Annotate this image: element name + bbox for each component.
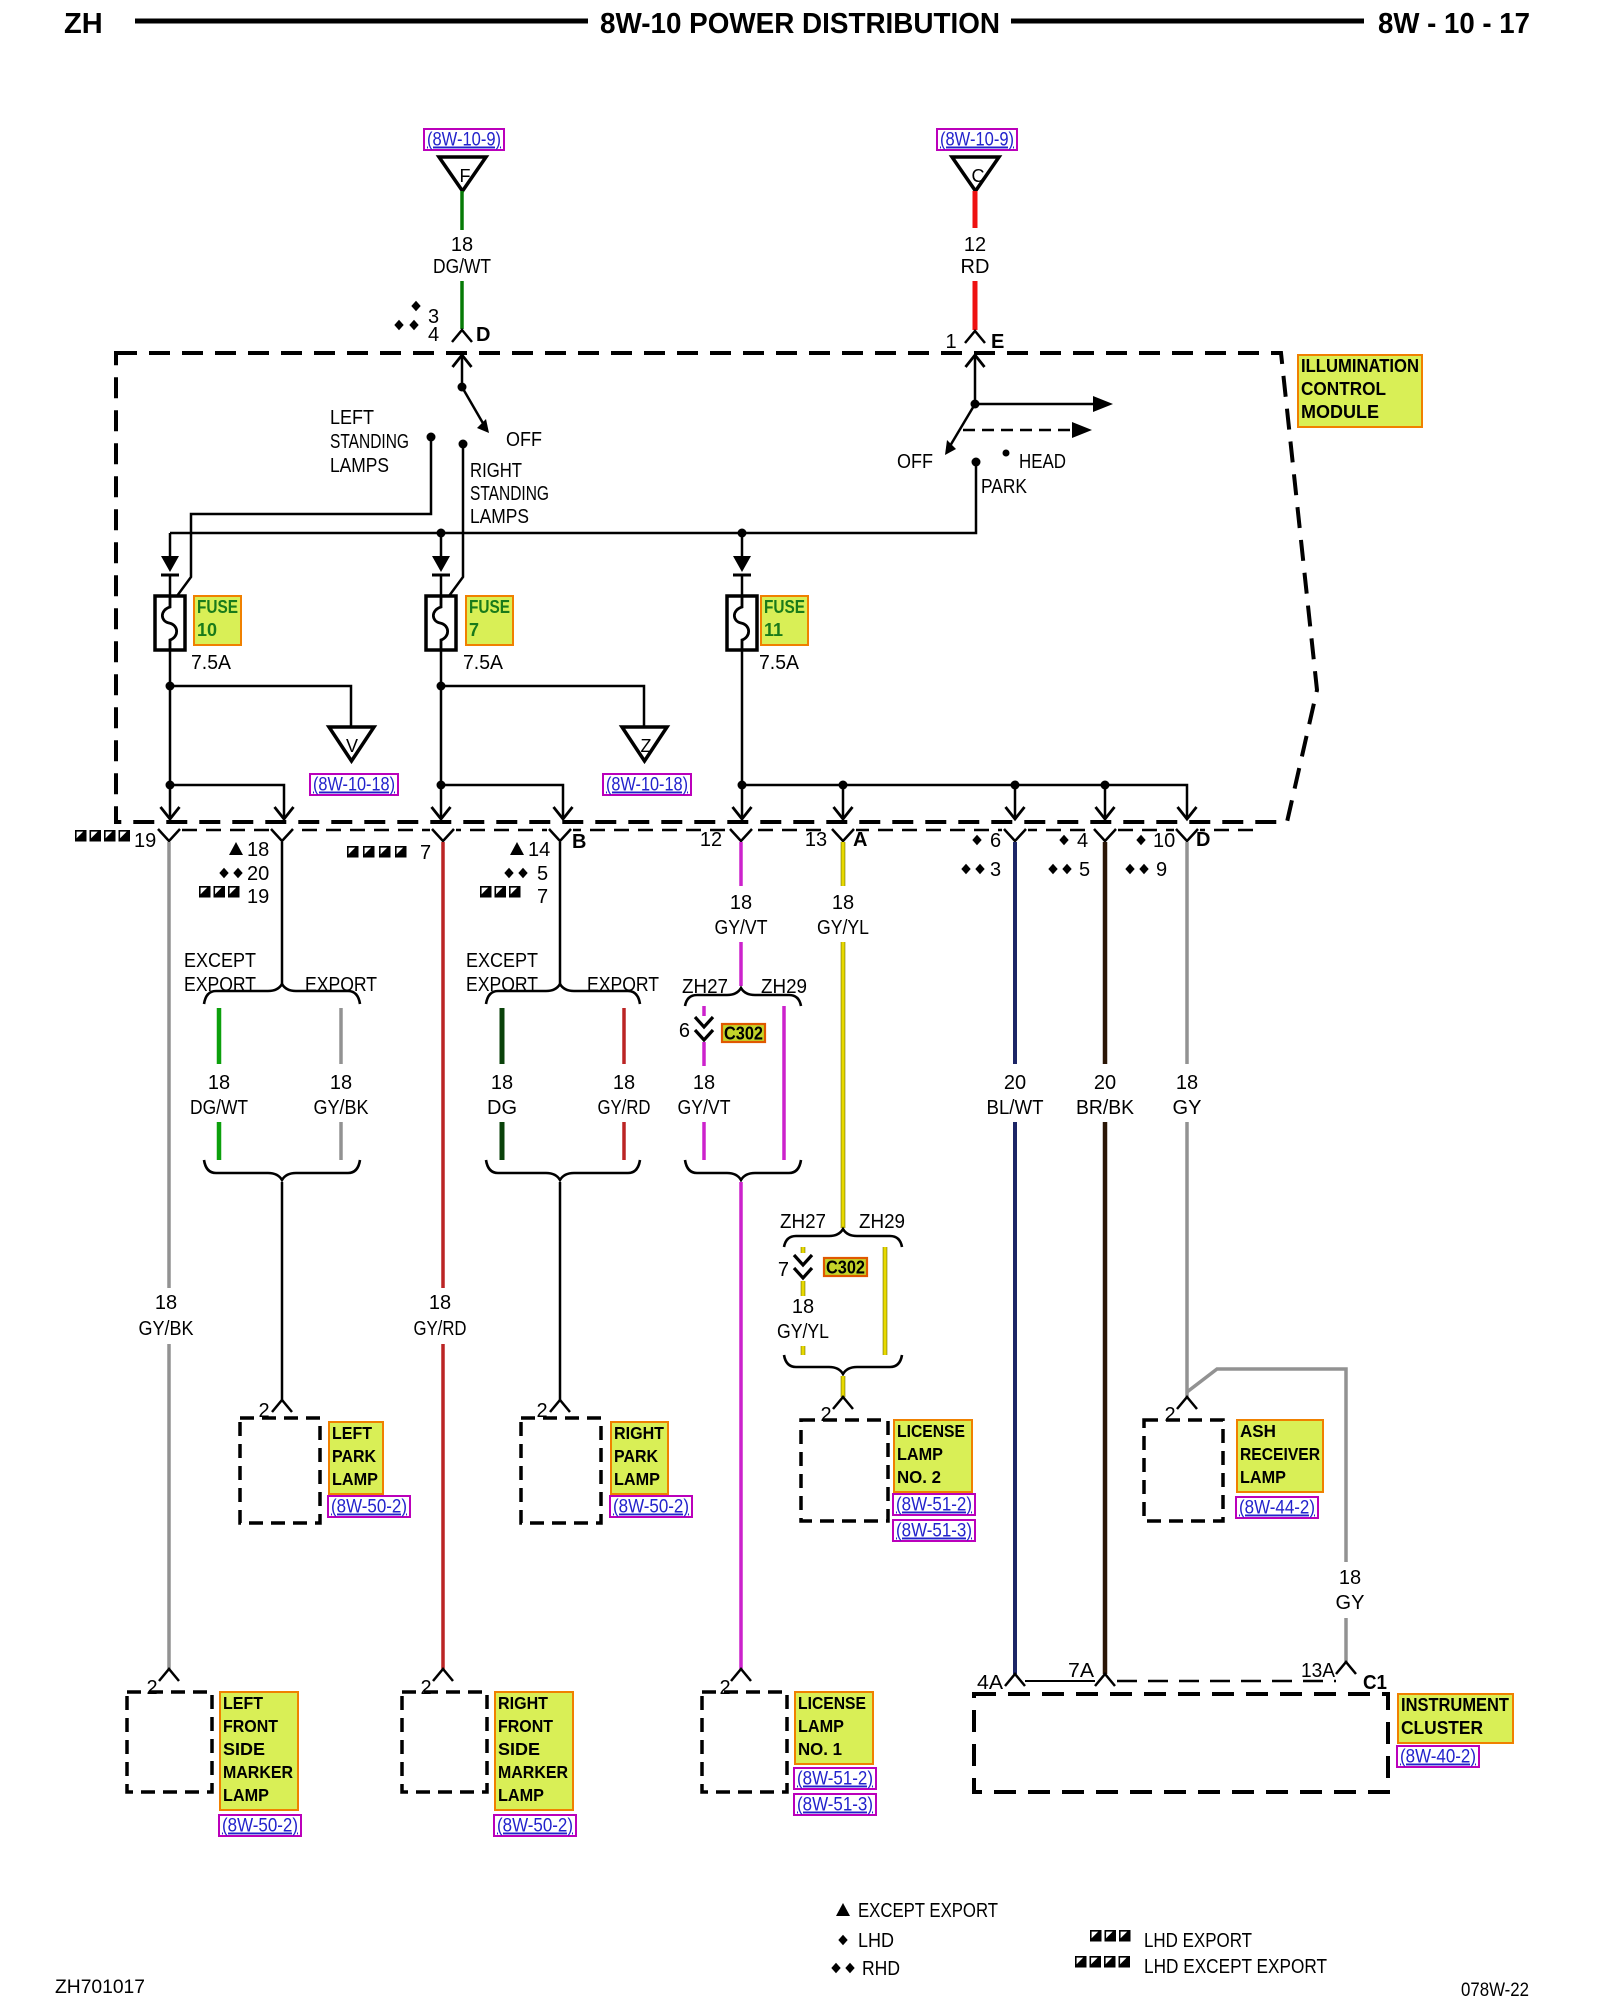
reference label (8W-51-3) — [893, 1520, 975, 1541]
wire 18 GY/VT column 5 upper — [739, 842, 743, 886]
svg-text:ZH29: ZH29 — [859, 1211, 905, 1233]
wire 18 DG/WT from F — [460, 191, 464, 230]
svg-text:5: 5 — [1079, 859, 1090, 881]
svg-text:Z: Z — [641, 736, 652, 756]
col3 circuit symbols: 4 squares, 7 — [347, 846, 359, 858]
fuse F10 — [155, 596, 185, 650]
ZH29 branch wire — [782, 1006, 786, 1160]
svg-text:LAMP: LAMP — [332, 1469, 378, 1489]
svg-text:LEFT: LEFT — [330, 407, 374, 429]
svg-text:7: 7 — [778, 1259, 789, 1281]
svg-text:LAMP: LAMP — [614, 1469, 660, 1489]
svg-text:BR/BK: BR/BK — [1076, 1097, 1135, 1119]
svg-text:7.5A: 7.5A — [463, 652, 504, 674]
license lamp no. 1 box — [702, 1692, 787, 1792]
drop to pin 19 — [169, 785, 172, 817]
fuse F7 — [426, 596, 456, 650]
svg-text:EXCEPT: EXCEPT — [466, 950, 538, 972]
PARK position contact — [972, 458, 981, 467]
svg-text:7: 7 — [537, 886, 548, 908]
svg-text:LEFT: LEFT — [223, 1693, 263, 1713]
svg-text:C302: C302 — [724, 1024, 763, 1044]
svg-text:(8W-10-18): (8W-10-18) — [313, 775, 395, 796]
svg-text:EXCEPT EXPORT: EXCEPT EXPORT — [858, 1900, 998, 1922]
svg-text:20: 20 — [247, 863, 269, 885]
wire column 2 from pin to brace — [281, 842, 284, 984]
wire from left standing lamps contact — [177, 437, 431, 596]
wire bus to diode of fuse 10 — [169, 533, 172, 556]
svg-text:C1: C1 — [1363, 1672, 1387, 1694]
svg-text:10: 10 — [1153, 830, 1175, 852]
diode above fuse 10 — [161, 556, 179, 572]
svg-text:13: 13 — [805, 829, 827, 851]
join brace column 5 — [685, 1160, 801, 1180]
instrument cluster label — [1398, 1694, 1513, 1743]
split brace column 5 — [685, 988, 801, 1006]
svg-text:18: 18 — [613, 1072, 635, 1094]
svg-text:ZH27: ZH27 — [780, 1211, 826, 1233]
svg-text:2: 2 — [820, 1404, 831, 1426]
svg-text:7.5A: 7.5A — [191, 652, 232, 674]
svg-text:LEFT: LEFT — [332, 1423, 372, 1443]
svg-text:CLUSTER: CLUSTER — [1401, 1718, 1483, 1738]
instrument cluster dashed box — [974, 1694, 1388, 1792]
svg-text:LICENSE: LICENSE — [897, 1421, 965, 1441]
LEFT STANDING LAMPS contact — [427, 433, 436, 442]
svg-text:CONTROL: CONTROL — [1301, 379, 1386, 399]
instrument cluster connector row line — [1025, 1680, 1095, 1682]
svg-text:18: 18 — [330, 1072, 352, 1094]
svg-text:5: 5 — [537, 863, 548, 885]
reference label (8W-10-9) for connector F — [424, 129, 504, 150]
illumination control module dashed outline — [116, 353, 1317, 822]
legend: squares LHD EXCEPT EXPORT — [1075, 1956, 1087, 1968]
svg-text:D: D — [1196, 829, 1210, 851]
left park lamp box — [240, 1418, 320, 1523]
distribution bus inside module — [742, 785, 1187, 817]
svg-text:7.5A: 7.5A — [759, 652, 800, 674]
svg-text:B: B — [572, 831, 586, 853]
svg-text:EXPORT: EXPORT — [587, 974, 659, 996]
svg-text:(8W-10-9): (8W-10-9) — [427, 130, 501, 151]
connector pin 2 of license lamp no. 2 — [833, 1397, 853, 1409]
svg-text:(8W-10-9): (8W-10-9) — [940, 130, 1014, 151]
wire 18 GY/VT to license lamp no. 1 — [739, 1182, 743, 1669]
connector pin 2 of right park lamp — [550, 1400, 570, 1412]
connector pin 7 (col 3) — [432, 829, 454, 841]
connector pin 12 (col 5) — [730, 829, 752, 841]
svg-text:GY/BK: GY/BK — [139, 1318, 195, 1340]
right front side marker lamp label — [495, 1692, 573, 1810]
svg-text:(8W-51-2): (8W-51-2) — [797, 1769, 873, 1790]
branch to pin 14/5/7 drop — [441, 785, 563, 817]
svg-text:EXPORT: EXPORT — [184, 974, 256, 996]
svg-text:20: 20 — [1004, 1072, 1026, 1094]
drop to pin 6/3 — [1014, 785, 1017, 817]
connector pin 2 of right front side marker lamp — [433, 1669, 453, 1681]
wire 18 GY upper — [1185, 842, 1189, 1064]
svg-text:8W - 10 - 17: 8W - 10 - 17 — [1378, 8, 1530, 40]
legend: diamond LHD — [838, 1935, 847, 1946]
arrow into module at pin D — [453, 355, 472, 367]
wire 18 DG/WT (except export) — [217, 1008, 222, 1064]
svg-text:12: 12 — [964, 234, 986, 256]
svg-text:GY: GY — [1336, 1592, 1365, 1614]
svg-text:18: 18 — [1176, 1072, 1198, 1094]
junction below fuse 10 — [166, 781, 175, 790]
svg-text:PARK: PARK — [614, 1446, 658, 1466]
right park lamp label — [611, 1422, 668, 1494]
reference label (8W-51-2) — [794, 1768, 876, 1789]
branch to pin 18/20/19 drop — [170, 785, 284, 817]
wire below fuse 7 — [440, 650, 443, 785]
wire 18 DG/WT to pin D — [460, 281, 464, 329]
svg-text:GY/RD: GY/RD — [414, 1318, 467, 1340]
ZH27 branch wire — [702, 1006, 706, 1016]
svg-text:RD: RD — [961, 256, 990, 278]
wire 20 BR/BK lower — [1103, 1122, 1108, 1674]
left park lamp label — [329, 1422, 383, 1494]
svg-text:BL/WT: BL/WT — [987, 1097, 1044, 1119]
col9 circuit symbols: diamond 10, diamonds 9 — [1136, 835, 1145, 846]
svg-text:RIGHT: RIGHT — [470, 460, 522, 482]
wire column 2 to left park lamp — [281, 1182, 284, 1400]
diode above fuse 7 — [432, 556, 450, 572]
svg-text:18: 18 — [429, 1292, 451, 1314]
drop to pin 12 — [741, 785, 744, 817]
svg-text:13A: 13A — [1301, 1660, 1336, 1682]
pin 4 marker (RHD) — [394, 320, 403, 331]
legend: squares LHD EXPORT — [1090, 1930, 1102, 1942]
svg-text:(8W-50-2): (8W-50-2) — [222, 1816, 298, 1837]
drop to pin B — [440, 785, 443, 817]
legend: diamonds RHD — [831, 1963, 840, 1974]
reference label (8W-10-9) for connector C — [937, 129, 1017, 150]
join brace column 4 — [486, 1160, 640, 1180]
switch E travel arrow solid — [975, 403, 1096, 406]
svg-text:2: 2 — [420, 1677, 431, 1699]
svg-text:18: 18 — [451, 234, 473, 256]
wire 18 DG (except export) — [500, 1008, 505, 1064]
license lamp no. 2 box — [801, 1420, 888, 1521]
wire 18 GY/BK column 1 upper — [167, 842, 171, 1288]
wire 20 BR/BK upper — [1103, 842, 1108, 1064]
reference label (8W-10-18) under Z — [603, 774, 691, 795]
connector pin 14/5/7 B (col 4) — [549, 829, 571, 841]
branch of GY wire to instrument cluster — [1187, 1369, 1346, 1562]
connector pin D of illumination control module — [452, 330, 472, 342]
svg-text:12: 12 — [700, 829, 722, 851]
svg-text:FUSE: FUSE — [197, 597, 238, 617]
drop to pin 13 A — [842, 785, 845, 817]
reference label (8W-50-2) — [610, 1496, 692, 1517]
svg-text:4: 4 — [428, 324, 439, 346]
svg-text:C302: C302 — [826, 1258, 865, 1278]
svg-text:LHD: LHD — [858, 1930, 894, 1952]
svg-text:E: E — [991, 331, 1004, 353]
connector pin 13 A (col 6) — [832, 829, 854, 841]
svg-text:7: 7 — [420, 842, 431, 864]
svg-text:6: 6 — [990, 830, 1001, 852]
svg-text:1: 1 — [945, 331, 956, 353]
svg-text:V: V — [346, 736, 358, 756]
svg-text:STANDING: STANDING — [330, 431, 409, 453]
branch to connector Z — [441, 686, 644, 727]
wire 18 GY/BK (export) — [339, 1008, 343, 1064]
svg-text:9: 9 — [1156, 859, 1167, 881]
junction below fuse 7 — [437, 781, 446, 790]
connector pin 2 of left front side marker lamp — [159, 1669, 179, 1681]
license lamp no. 1 label — [795, 1692, 873, 1764]
svg-text:PARK: PARK — [332, 1446, 376, 1466]
switch E travel arrow dashed — [963, 429, 1070, 432]
svg-text:LHD EXCEPT EXPORT: LHD EXCEPT EXPORT — [1144, 1956, 1327, 1978]
svg-text:FRONT: FRONT — [498, 1716, 553, 1736]
fuse F11 — [727, 596, 757, 650]
connector F triangle — [439, 157, 486, 191]
svg-text:18: 18 — [832, 892, 854, 914]
split brace column 6 — [784, 1229, 902, 1247]
pin 3 marker (LHD) — [411, 301, 420, 312]
svg-text:MARKER: MARKER — [223, 1762, 293, 1782]
svg-text:GY/BK: GY/BK — [314, 1097, 370, 1119]
col8 circuit symbols: diamond 4, diamonds 5 — [1059, 835, 1068, 846]
junction at fuse 11 feed — [738, 529, 747, 538]
svg-text:GY/VT: GY/VT — [715, 917, 768, 939]
svg-text:18: 18 — [792, 1296, 814, 1318]
svg-text:14: 14 — [528, 839, 550, 861]
svg-text:11: 11 — [764, 620, 783, 640]
connector pin 7A of instrument cluster — [1095, 1674, 1115, 1686]
svg-text:LAMPS: LAMPS — [470, 506, 529, 528]
svg-text:GY/RD: GY/RD — [598, 1097, 651, 1119]
svg-text:GY: GY — [1173, 1097, 1202, 1119]
svg-text:18: 18 — [693, 1072, 715, 1094]
in-line connector C302 (pin 6) — [695, 1017, 713, 1027]
svg-text:(8W-50-2): (8W-50-2) — [497, 1816, 573, 1837]
svg-text:18: 18 — [247, 839, 269, 861]
connector pin 4A of instrument cluster — [1005, 1674, 1025, 1686]
svg-text:ZH: ZH — [64, 8, 103, 40]
switch E blade to OFF — [950, 404, 975, 446]
drop to pin 10/9 D — [1178, 807, 1197, 819]
diode above fuse 11 — [733, 556, 751, 572]
in-line connector C302 (pin 7) — [794, 1255, 812, 1265]
svg-text:OFF: OFF — [897, 451, 933, 473]
switch D blade to OFF — [462, 387, 484, 425]
svg-text:LAMP: LAMP — [223, 1785, 269, 1805]
svg-text:INSTRUMENT: INSTRUMENT — [1401, 1695, 1509, 1715]
ZH27 branch wire below C302 — [702, 1042, 706, 1066]
legend: triangle EXCEPT EXPORT — [836, 1903, 850, 1916]
svg-text:SIDE: SIDE — [498, 1739, 540, 1759]
switch D pivot node — [458, 383, 467, 392]
svg-text:MODULE: MODULE — [1301, 402, 1379, 422]
connector pin 18/20/19 (col 2) — [271, 829, 293, 841]
wire below fuse 10 — [169, 650, 172, 785]
svg-text:4A: 4A — [977, 1672, 1004, 1694]
ash receiver lamp box — [1144, 1420, 1223, 1521]
svg-text:18: 18 — [155, 1292, 177, 1314]
left front side marker lamp label — [220, 1692, 298, 1810]
svg-text:2: 2 — [146, 1677, 157, 1699]
col4 circuit symbols: triangle 14, diamonds 5, squares 7 — [510, 842, 524, 855]
svg-text:C: C — [972, 166, 985, 186]
svg-text:ASH: ASH — [1240, 1421, 1276, 1441]
svg-text:NO. 2: NO. 2 — [897, 1467, 941, 1487]
svg-text:18: 18 — [208, 1072, 230, 1094]
svg-text:6: 6 — [679, 1020, 690, 1042]
illumination control module label box — [1298, 355, 1422, 427]
wire 18 GY/YL to license lamp no. 2 — [841, 1376, 846, 1397]
svg-text:3: 3 — [990, 859, 1001, 881]
left front side marker lamp box — [127, 1692, 212, 1792]
connector V triangle — [329, 727, 374, 761]
svg-text:RHD: RHD — [862, 1958, 900, 1980]
reference label (8W-50-2) — [328, 1496, 410, 1517]
svg-text:RIGHT: RIGHT — [498, 1693, 548, 1713]
svg-text:F: F — [460, 166, 471, 186]
svg-text:HEAD: HEAD — [1019, 451, 1066, 473]
switch E pivot node — [971, 400, 980, 409]
wire 18 GY/BK column 1 lower — [167, 1344, 171, 1669]
reference label (8W-51-2) — [893, 1494, 975, 1515]
svg-text:LAMP: LAMP — [498, 1785, 544, 1805]
wire below fuse 11 — [741, 650, 744, 785]
junction at fuse 7 feed — [437, 529, 446, 538]
svg-text:2: 2 — [719, 1677, 730, 1699]
right front side marker lamp box — [402, 1692, 487, 1792]
fuse 7 label box — [466, 596, 513, 645]
wire 20 BL/WT upper — [1013, 842, 1017, 1064]
wire column 4 to right park lamp — [559, 1182, 562, 1400]
svg-text:19: 19 — [134, 830, 156, 852]
junction below fuse 11 — [738, 781, 747, 790]
wire from PARK contact to feed bus — [170, 462, 976, 533]
header rule left — [135, 19, 588, 24]
svg-text:(8W-10-18): (8W-10-18) — [606, 775, 688, 796]
license lamp no. 2 label — [894, 1420, 972, 1492]
svg-text:FUSE: FUSE — [764, 597, 805, 617]
svg-text:(8W-51-2): (8W-51-2) — [896, 1495, 972, 1516]
svg-text:(8W-44-2): (8W-44-2) — [1239, 1498, 1315, 1519]
wire 18 GY/RD column 3 upper — [441, 842, 445, 1288]
reference label (8W-44-2) — [1236, 1497, 1318, 1518]
arrow into module at pin E — [966, 355, 985, 367]
svg-text:(8W-40-2): (8W-40-2) — [1400, 1747, 1476, 1768]
connector pin 13A of instrument cluster — [1336, 1662, 1356, 1674]
fuse 11 label box — [761, 596, 808, 645]
wire bus to diode of fuse 11 — [741, 533, 744, 556]
svg-text:LHD EXPORT: LHD EXPORT — [1144, 1930, 1252, 1952]
wire 12 RD from C — [973, 191, 978, 228]
wire bus to diode of fuse 7 — [440, 533, 443, 556]
connector pin 4/5 (col 8) — [1094, 829, 1116, 841]
svg-text:078W-22: 078W-22 — [1461, 1980, 1529, 2000]
svg-text:A: A — [853, 829, 867, 851]
svg-text:LAMPS: LAMPS — [330, 455, 389, 477]
branch to connector V — [170, 686, 351, 727]
col2 circuit symbols: triangle 18, diamonds 20, squares 19 — [229, 842, 243, 855]
col7 circuit symbols: diamond 6, diamonds 3 — [972, 835, 981, 846]
svg-text:RECEIVER: RECEIVER — [1240, 1444, 1320, 1464]
svg-text:SIDE: SIDE — [223, 1739, 265, 1759]
svg-text:7: 7 — [469, 620, 479, 640]
svg-text:FUSE: FUSE — [469, 597, 510, 617]
svg-text:4: 4 — [1077, 830, 1088, 852]
svg-text:D: D — [476, 324, 490, 346]
svg-text:EXPORT: EXPORT — [305, 974, 377, 996]
svg-text:ZH701017: ZH701017 — [55, 1977, 145, 1998]
svg-text:MARKER: MARKER — [498, 1762, 568, 1782]
svg-text:LAMP: LAMP — [897, 1444, 943, 1464]
svg-text:EXCEPT: EXCEPT — [184, 950, 256, 972]
reference label (8W-10-18) under V — [310, 774, 398, 795]
svg-text:GY/YL: GY/YL — [817, 917, 869, 939]
svg-text:20: 20 — [1094, 1072, 1116, 1094]
svg-text:FRONT: FRONT — [223, 1716, 278, 1736]
connector pin 6/3 (col 7) — [1004, 829, 1026, 841]
svg-text:7A: 7A — [1068, 1660, 1095, 1682]
split brace column 4 — [486, 984, 640, 1004]
split brace column 2 — [204, 984, 360, 1004]
reference label (8W-50-2) — [219, 1815, 301, 1836]
wire 12 RD to pin E — [973, 281, 978, 330]
ash receiver lamp label — [1237, 1420, 1323, 1492]
HEAD position contact — [1003, 450, 1010, 457]
join brace column 2 — [204, 1160, 360, 1180]
wire 18 GY/RD column 3 lower — [441, 1344, 445, 1669]
svg-text:DG/WT: DG/WT — [433, 256, 491, 278]
reference label (8W-51-3) — [794, 1794, 876, 1815]
svg-text:18: 18 — [730, 892, 752, 914]
svg-text:(8W-50-2): (8W-50-2) — [613, 1497, 689, 1518]
wire 18 GY lower — [1185, 1122, 1189, 1397]
svg-text:GY/VT: GY/VT — [678, 1097, 731, 1119]
ZH27 branch wire — [801, 1247, 806, 1253]
svg-text:NO. 1: NO. 1 — [798, 1739, 842, 1759]
svg-text:LAMP: LAMP — [1240, 1467, 1286, 1487]
ZH29 branch wire — [883, 1247, 888, 1355]
svg-text:19: 19 — [247, 886, 269, 908]
svg-text:GY/YL: GY/YL — [777, 1321, 829, 1343]
fuse 10 label box — [194, 596, 241, 645]
svg-text:EXPORT: EXPORT — [466, 974, 538, 996]
connector pin 10/9 D (col 9) — [1176, 829, 1198, 841]
svg-text:ILLUMINATION: ILLUMINATION — [1301, 356, 1419, 376]
reference label (8W-50-2) — [494, 1815, 576, 1836]
connector Z triangle — [622, 727, 667, 761]
connector C triangle — [952, 157, 999, 191]
svg-text:8W-10 POWER DISTRIBUTION: 8W-10 POWER DISTRIBUTION — [600, 8, 1000, 40]
RIGHT STANDING LAMPS contact — [459, 440, 468, 449]
svg-text:18: 18 — [1339, 1567, 1361, 1589]
wire 18 GY/YL column 6 upper — [841, 842, 846, 886]
svg-text:(8W-51-3): (8W-51-3) — [797, 1795, 873, 1816]
wire from right standing lamps contact — [449, 444, 463, 596]
wire 18 GY/RD (export) — [622, 1008, 626, 1064]
header rule right — [1011, 19, 1364, 24]
svg-text:LAMP: LAMP — [798, 1716, 844, 1736]
wire column 4 from pin B to brace — [559, 842, 562, 984]
connector pin 2 of left park lamp — [272, 1400, 292, 1412]
join brace column 6 — [784, 1355, 902, 1374]
connector pin E of illumination control module — [965, 331, 985, 343]
module bottom connector row dashed line — [158, 829, 1262, 832]
svg-text:2: 2 — [1164, 1404, 1175, 1426]
drop to pin 4/5 — [1104, 785, 1107, 817]
svg-text:DG/WT: DG/WT — [190, 1097, 248, 1119]
